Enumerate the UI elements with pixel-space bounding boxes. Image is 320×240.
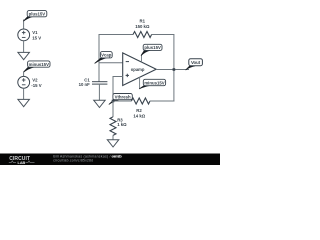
- flag Vthresh: [109, 94, 133, 105]
- wire flag to V2 top: [23, 72, 25, 77]
- ground under R3: [107, 140, 119, 147]
- wire Vcap node vertical: [98, 34, 100, 82]
- svg-text:circuitlab.com/c/85x28d: circuitlab.com/c/85x28d: [53, 158, 93, 162]
- resistor R2: [131, 98, 150, 104]
- resistor R3: [110, 117, 116, 136]
- flag plus15V (op-amp V+): [141, 44, 162, 55]
- resistor R1: [133, 32, 152, 38]
- voltage source V1: [18, 29, 30, 41]
- svg-text:150 kΩ: 150 kΩ: [135, 24, 150, 29]
- svg-text:-15 V: -15 V: [31, 83, 41, 88]
- svg-text:plus15V: plus15V: [29, 12, 46, 17]
- svg-text:plus15V: plus15V: [144, 45, 161, 50]
- wire output to Vout flag: [174, 69, 189, 71]
- flag minus15V (supply): [23, 61, 50, 72]
- flag Vout: [186, 59, 203, 70]
- flag plus15V (supply): [23, 11, 46, 22]
- capacitor C1: [92, 82, 107, 84]
- ground under C1: [94, 100, 106, 107]
- svg-text:V1: V1: [32, 30, 38, 35]
- svg-text:10 nF: 10 nF: [79, 82, 91, 87]
- label V2 -15 V: [31, 77, 41, 88]
- op-amp plus marker: [126, 74, 129, 77]
- svg-text:14 kΩ: 14 kΩ: [133, 113, 145, 118]
- op-amp body: [123, 53, 157, 86]
- svg-text:Vcap: Vcap: [101, 53, 112, 58]
- CircuitLab logo: [9, 156, 35, 165]
- label R2 14 kOhm: [133, 108, 145, 118]
- flag Vcap: [95, 52, 113, 64]
- wire Vthresh node down to R3: [112, 101, 114, 117]
- svg-text:opamp: opamp: [131, 67, 145, 72]
- svg-text:minus15V: minus15V: [29, 62, 49, 67]
- svg-text:minus15V: minus15V: [144, 80, 164, 85]
- svg-text:Vout: Vout: [191, 60, 201, 65]
- label C1 10 nF: [79, 77, 91, 87]
- wire R1 right to corner: [151, 34, 174, 36]
- svg-text:1 kΩ: 1 kΩ: [117, 122, 127, 127]
- wire Vthresh node to R2: [113, 100, 132, 102]
- label V1 15 V: [32, 30, 41, 41]
- voltage source V2: [18, 76, 30, 88]
- label R3 1 kOhm: [117, 118, 127, 128]
- svg-text:15 V: 15 V: [32, 36, 41, 41]
- wire R2 right to output net: [150, 100, 175, 102]
- junction Vthresh node: [112, 100, 115, 103]
- wire C1 bottom to ground: [98, 84, 100, 100]
- svg-text:V2: V2: [32, 77, 38, 82]
- op-amp V+ pin stub: [141, 55, 143, 62]
- wire right vertical (output net): [173, 35, 175, 102]
- svg-text:R2: R2: [136, 108, 142, 113]
- wire V2 bottom to ground: [23, 88, 25, 99]
- svg-text:Vthresh: Vthresh: [115, 95, 131, 100]
- wire top to R1 left: [99, 34, 134, 36]
- op-amp V- pin stub: [139, 77, 141, 88]
- watermark credit line: [53, 154, 122, 162]
- flag minus15V (op-amp V-): [139, 79, 165, 89]
- ground under V2: [18, 99, 30, 106]
- label R1 150 kOhm: [135, 19, 150, 29]
- watermark bar: [0, 154, 220, 166]
- junction output node: [173, 68, 176, 71]
- svg-text:exam2b: exam2b: [112, 154, 123, 158]
- wire plus15V flag to V1 top: [23, 20, 25, 30]
- wire inverting input: [99, 62, 123, 64]
- wire V1 bottom to ground: [23, 41, 25, 53]
- op-amp minus marker: [126, 61, 129, 63]
- wire op-amp output: [156, 69, 174, 71]
- svg-text:LAB: LAB: [18, 161, 26, 165]
- wire R3 bottom to ground: [112, 135, 114, 140]
- svg-text:R1: R1: [140, 19, 146, 24]
- ground under V1: [18, 52, 30, 59]
- wire noninverting input: [113, 77, 123, 102]
